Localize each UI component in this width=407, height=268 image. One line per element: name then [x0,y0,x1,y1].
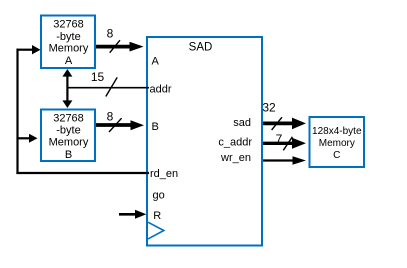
addr bus (15) [67,70,149,97]
svg-text:Memory: Memory [49,43,89,55]
clock chevron [148,222,164,239]
svg-text:rd_en: rd_en [150,168,178,180]
wire wr_en to memory C [263,156,306,165]
svg-text:32768: 32768 [53,19,84,31]
svg-text:sad: sad [233,117,251,129]
memory A box [41,16,95,69]
addr vertical double arrow [62,69,72,108]
svg-text:C: C [333,150,340,161]
svg-text:-byte: -byte [56,125,80,137]
svg-text:7: 7 [276,132,283,146]
svg-text:SAD: SAD [189,41,213,53]
svg-text:go: go [153,189,165,201]
memory B label [49,113,89,161]
wire rd_en vertical [16,49,18,174]
svg-text:128x4-byte: 128x4-byte [312,126,362,137]
svg-text:32: 32 [262,101,276,115]
wire rd_en horizontal [16,172,149,174]
svg-text:8: 8 [107,27,114,41]
svg-text:15: 15 [91,70,105,84]
bus c_addr to memory C (7) [263,132,306,151]
wire branch into memory A [17,45,41,54]
svg-text:Memory: Memory [49,137,89,149]
svg-text:8: 8 [107,110,114,124]
svg-text:B: B [65,149,72,161]
svg-text:A: A [152,55,160,67]
svg-text:32768: 32768 [53,113,84,125]
bus B to SAD (8) [96,110,144,132]
svg-text:R: R [153,210,161,222]
memory A label [49,19,89,68]
svg-text:B: B [152,121,159,133]
memory B box [41,110,95,162]
svg-text:-byte: -byte [56,31,80,43]
memory C box [310,117,365,167]
svg-text:wr_en: wr_en [220,152,251,164]
wire branch into memory B [17,134,38,143]
svg-text:c_addr: c_addr [218,136,252,148]
svg-text:Memory: Memory [319,138,355,149]
bus sad to memory C (32) [262,101,306,131]
bus A to SAD (8) [96,27,144,53]
SAD block [147,37,262,246]
svg-text:addr: addr [150,84,172,96]
input arrow R [119,210,146,219]
svg-text:A: A [65,55,73,67]
memory C label [312,126,362,161]
